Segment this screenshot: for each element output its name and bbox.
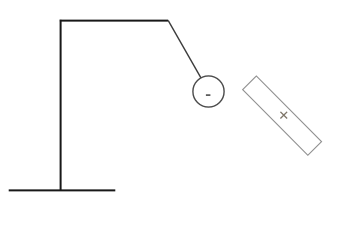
rotated rectangle component (positive) bbox=[243, 76, 322, 155]
top horizontal wire bbox=[60, 20, 169, 22]
node circle (negative terminal) bbox=[193, 76, 224, 107]
ground base line bbox=[9, 189, 116, 191]
diagonal wire to node bbox=[168, 21, 201, 78]
vertical pole wire bbox=[60, 20, 62, 191]
plus label bbox=[280, 112, 287, 119]
minus label bbox=[206, 94, 211, 96]
